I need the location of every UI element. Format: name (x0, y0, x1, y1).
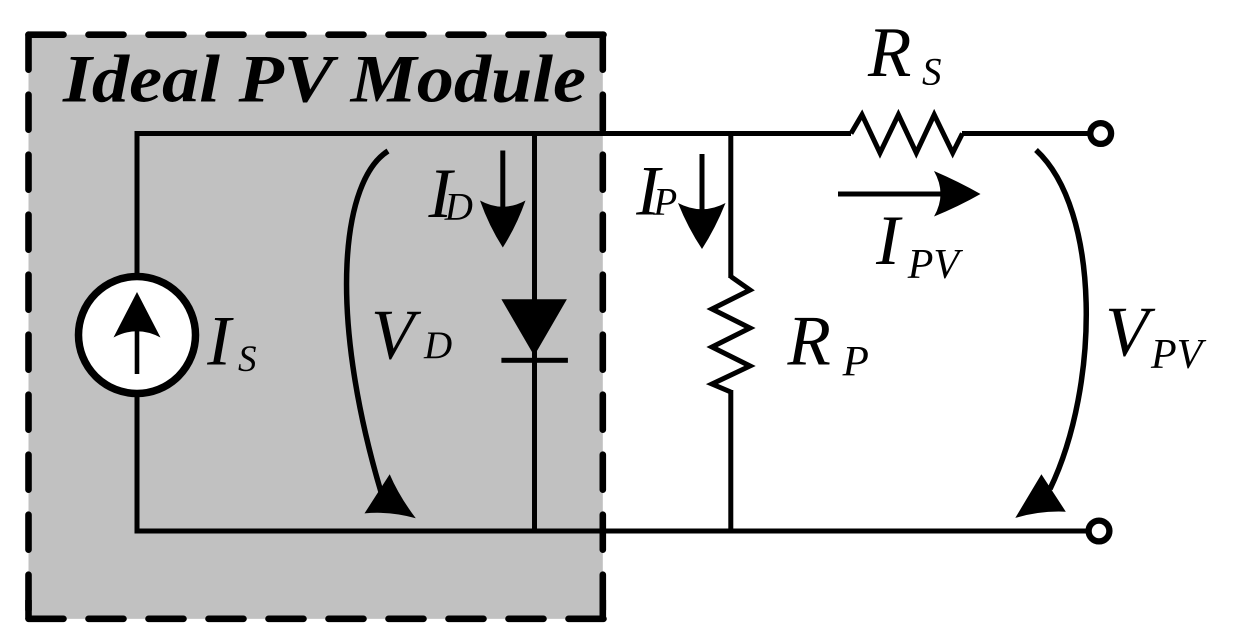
wire: bottom horizontal (135, 529, 1087, 534)
module box dashed right edge (599, 35, 606, 619)
ideal PV module dashed gray box (29, 35, 603, 619)
svg-text:S: S (922, 50, 942, 93)
arrow ID (down) (500, 151, 505, 213)
wire: Rp branch vertical top (728, 131, 733, 278)
svg-text:P: P (652, 181, 677, 224)
current source IS circle (79, 277, 196, 394)
svg-text:PV: PV (907, 242, 964, 288)
wire: left vertical bottom (Is branch lower) (135, 392, 140, 534)
svg-text:D: D (423, 324, 452, 367)
svg-text:Ideal PV Module: Ideal PV Module (62, 40, 586, 116)
module box bottom-right corner dash join (600, 600, 607, 619)
module box dashed top edge (29, 31, 605, 38)
diode D triangle (501, 299, 567, 356)
svg-text:I: I (875, 202, 903, 280)
VPV arrowhead (1015, 474, 1066, 518)
module box dashed bottom edge (29, 616, 605, 623)
arrow IPV (right) (838, 192, 948, 197)
wire: Rp branch vertical bottom (728, 390, 733, 534)
bottom terminal circle (1089, 521, 1110, 542)
current source IS arrow (135, 330, 140, 374)
module box bottom-left corner dash join (25, 600, 32, 619)
svg-text:PV: PV (1150, 332, 1207, 378)
diode D cathode bar (501, 358, 568, 363)
svg-text:I: I (206, 302, 234, 380)
resistor RP zigzag (712, 277, 750, 393)
VD arrowhead (365, 474, 416, 518)
wire: diode branch vertical (532, 131, 537, 534)
module box dashed left edge (25, 35, 32, 619)
svg-text:R: R (867, 14, 911, 92)
wire: top horizontal from Is branch to Rs (135, 131, 852, 136)
svg-text:V: V (371, 297, 422, 375)
resistor RS zigzag (851, 115, 962, 153)
arrow IP (down) (700, 154, 705, 214)
top terminal circle (1090, 123, 1111, 144)
VPV curved arrow arc (1036, 150, 1086, 489)
svg-text:D: D (444, 186, 473, 229)
svg-text:V: V (1105, 293, 1156, 371)
svg-text:S: S (238, 339, 257, 380)
svg-text:R: R (787, 303, 831, 381)
wire: left vertical top (Is branch upper) (135, 131, 140, 278)
VD curved arrow arc (347, 151, 388, 492)
wire: top horizontal from Rs to top terminal (962, 131, 1088, 136)
svg-text:P: P (842, 339, 869, 386)
